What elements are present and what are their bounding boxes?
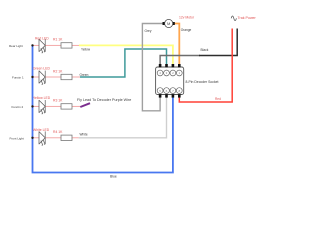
wire green (pin 3) xyxy=(80,49,167,77)
svg-text:Yellow LED: Yellow LED xyxy=(33,96,51,100)
pin nubs top xyxy=(159,64,162,67)
svg-text:Red LED: Red LED xyxy=(35,37,49,41)
wire red stub row4 xyxy=(33,137,40,139)
svg-text:Functn 1: Functn 1 xyxy=(12,75,24,79)
svg-text:White LED: White LED xyxy=(33,128,50,132)
wire black track (pin 4) xyxy=(160,56,200,65)
svg-text:R2 1K: R2 1K xyxy=(53,69,63,73)
resistor R4 xyxy=(61,135,72,140)
svg-text:Front Light: Front Light xyxy=(10,136,25,140)
socket U1: 8-pin decoder socket xyxy=(156,67,184,95)
wire white (pin 6) xyxy=(79,97,167,138)
svg-text:Green LED: Green LED xyxy=(33,66,51,70)
node junction row3 xyxy=(31,105,33,107)
svg-text:Grey: Grey xyxy=(145,29,152,33)
svg-text:Rear Light: Rear Light xyxy=(9,44,23,48)
wire orange motor (pin 1) xyxy=(174,24,180,65)
motor U2 xyxy=(163,22,166,25)
svg-text:Orange: Orange xyxy=(181,28,192,32)
resistor R3 xyxy=(61,104,72,109)
node junction row4 xyxy=(31,137,33,139)
svg-text:White: White xyxy=(80,132,88,136)
node junction row2 xyxy=(31,76,33,78)
wire yellow (pin 2) xyxy=(79,45,173,64)
pin circles bottom 5 6 7 8 xyxy=(157,88,182,94)
LED D1 (Red LED) xyxy=(39,39,45,53)
svg-text:Fly Lead To Decoder Purple Wir: Fly Lead To Decoder Purple Wire xyxy=(77,98,131,102)
pin nubs bottom xyxy=(159,94,162,97)
LED D4 (White LED) xyxy=(39,131,45,145)
svg-text:Black: Black xyxy=(201,48,209,52)
svg-text:Blue: Blue xyxy=(110,174,117,178)
node junction row1 xyxy=(31,44,33,46)
wire red stub row3 xyxy=(33,105,40,107)
wire grey motor (pin 5) xyxy=(142,24,163,111)
LED D2 (Green LED) xyxy=(39,71,45,85)
svg-text:Red: Red xyxy=(215,97,221,101)
svg-text:R4 1K: R4 1K xyxy=(53,130,63,134)
wire red stub row2 xyxy=(33,76,40,78)
svg-text:M: M xyxy=(167,21,170,26)
svg-text:Yellow: Yellow xyxy=(81,48,91,52)
pin circles top 4 3 2 1 xyxy=(157,70,182,76)
resistor R2 xyxy=(61,74,72,79)
svg-text:R1 1K: R1 1K xyxy=(53,38,63,42)
LED D3 (Yellow LED) xyxy=(39,100,45,114)
wire red track (pin 8) xyxy=(179,29,232,103)
wire blue bus xyxy=(33,46,173,173)
svg-text:Trak Power: Trak Power xyxy=(238,16,257,20)
track power source xyxy=(231,16,236,21)
svg-text:Functn 2: Functn 2 xyxy=(12,105,24,109)
svg-text:Green: Green xyxy=(80,73,89,77)
wire red stub row1 xyxy=(33,44,40,46)
svg-text:R3 1K: R3 1K xyxy=(53,99,63,103)
svg-text:12v Motor: 12v Motor xyxy=(179,15,195,19)
svg-text:8-Pin Decoder Socket: 8-Pin Decoder Socket xyxy=(186,80,219,84)
resistor R1 xyxy=(61,43,72,48)
wire purple fly lead xyxy=(80,103,90,107)
